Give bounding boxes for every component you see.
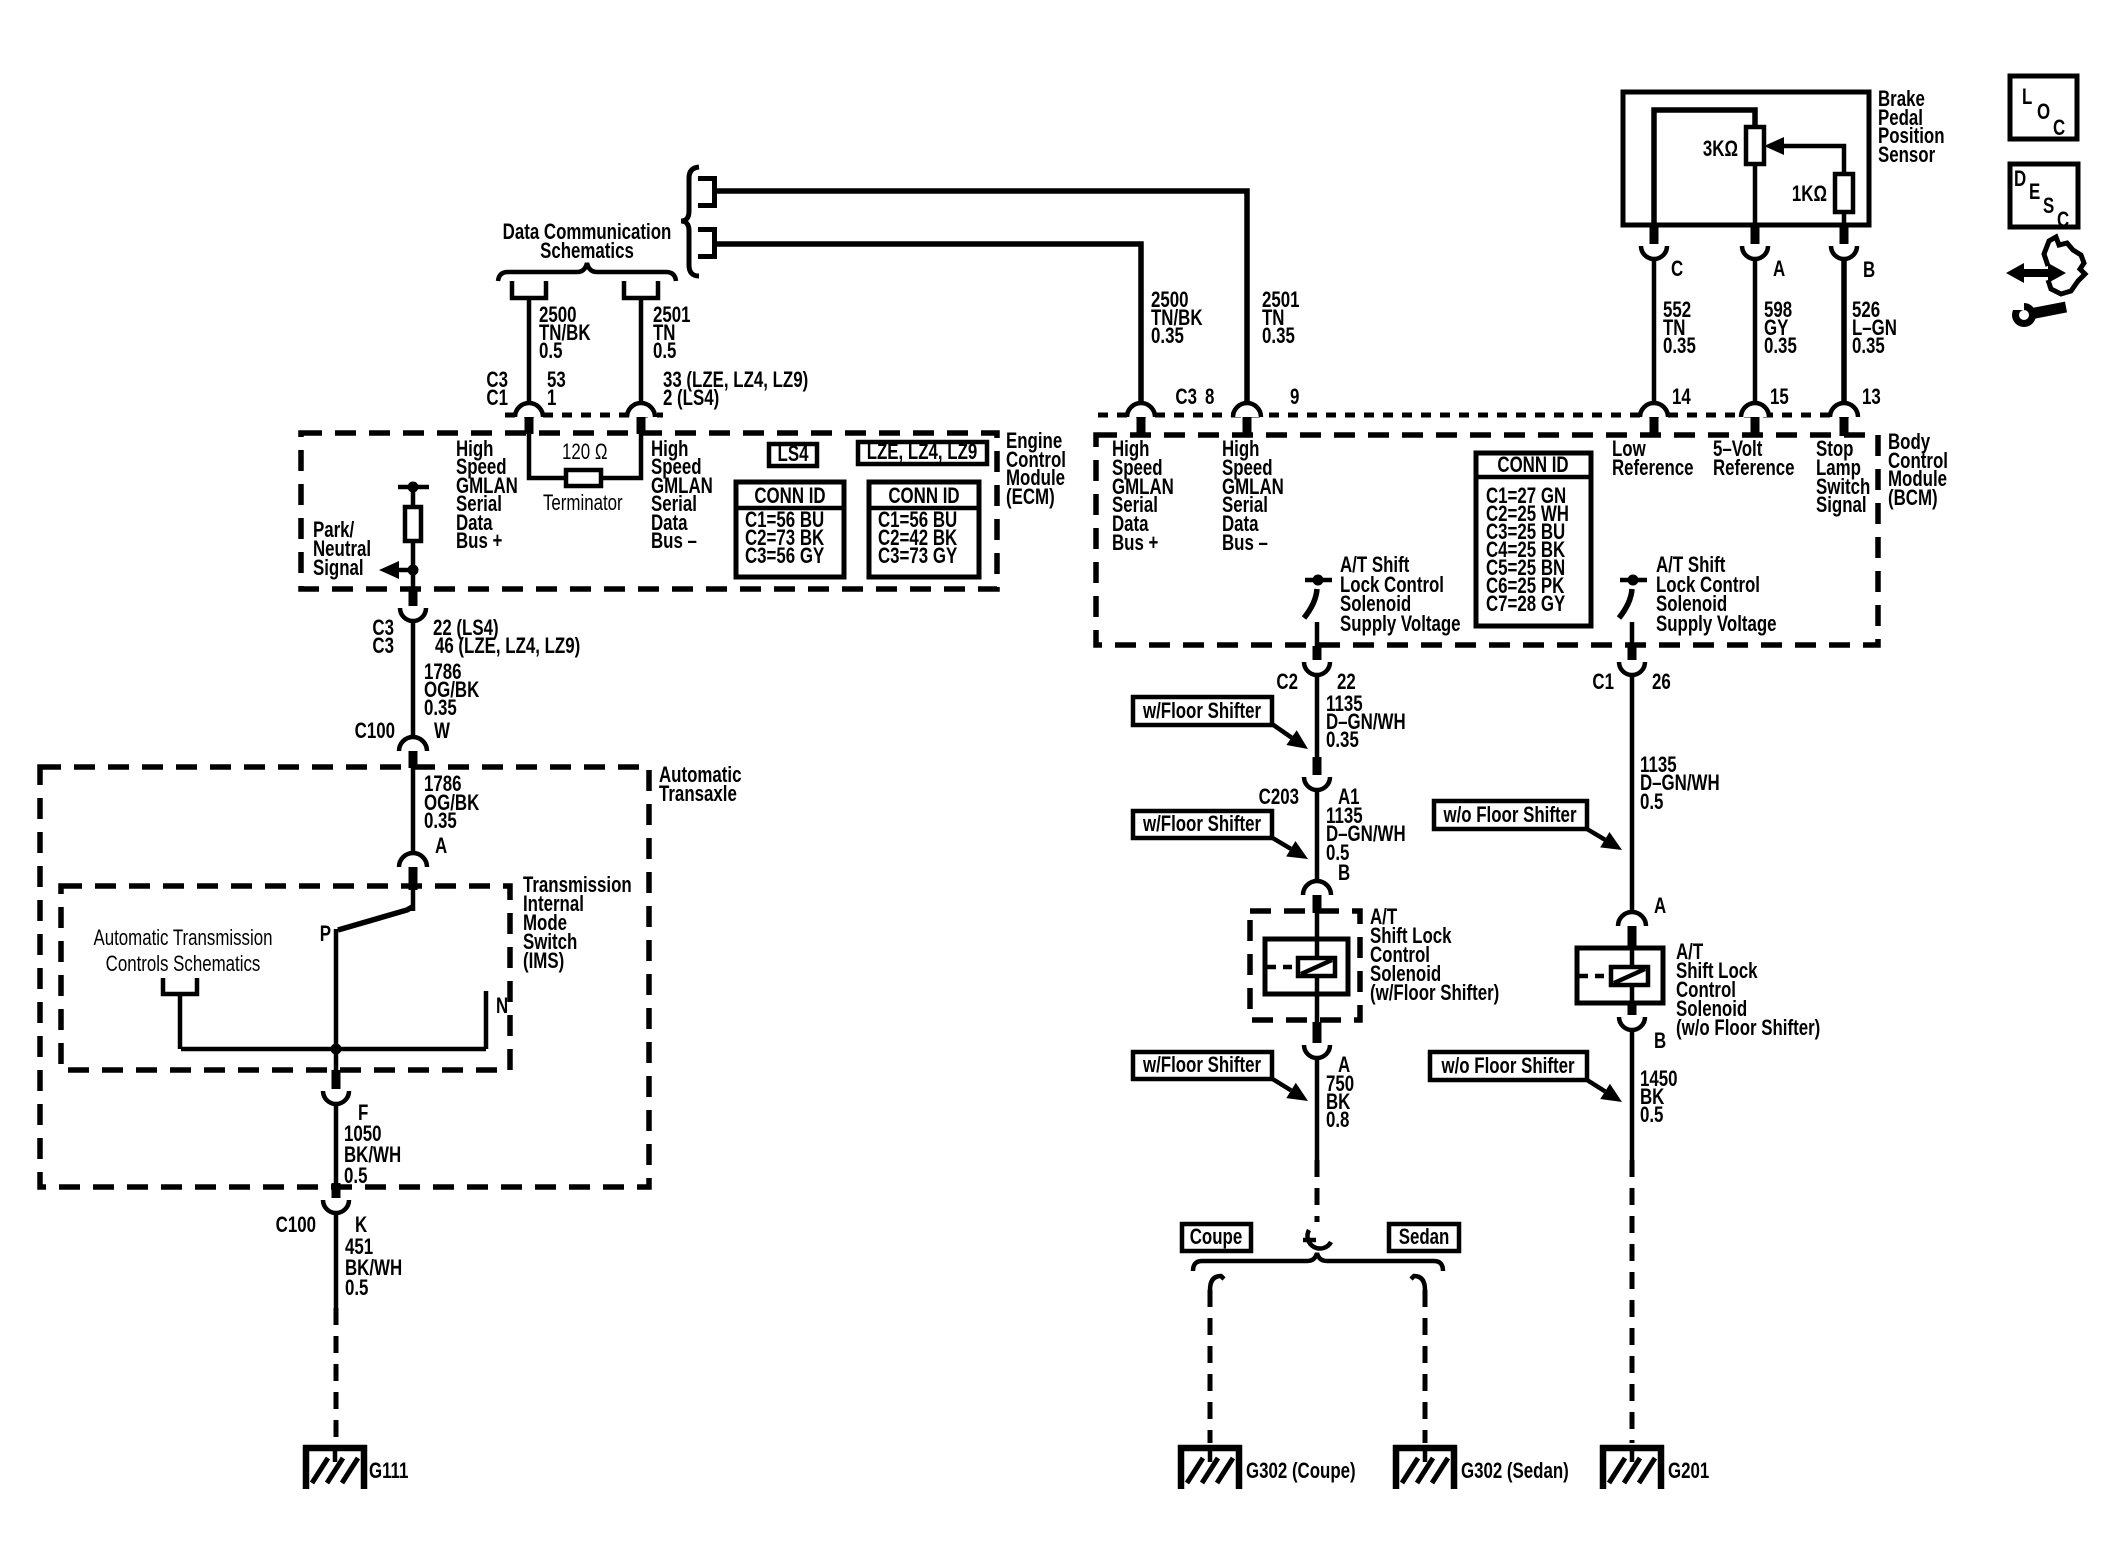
- connector C100 pin K hook: [323, 1200, 349, 1213]
- svg-text:w/o Floor Shifter: w/o Floor Shifter: [1441, 1054, 1575, 1079]
- connector C3/C1 hook into ECM pin 53/1: [515, 403, 543, 417]
- svg-text:Reference: Reference: [1612, 456, 1694, 481]
- label 598 GY 0.35: [1764, 298, 1797, 359]
- connector sensor pin C: [1650, 227, 1659, 244]
- connector half bracket controls schematics: [163, 978, 197, 994]
- label 1786 OG/BK 0.35 upper: [424, 660, 480, 721]
- svg-text:CONN ID: CONN ID: [754, 484, 825, 509]
- svg-text:W: W: [434, 719, 450, 744]
- wire 2500 TN/BK to BCM pin 9: [716, 191, 1247, 403]
- svg-text:Reference: Reference: [1713, 456, 1795, 481]
- label 1450 BK 0.5: [1640, 1067, 1678, 1128]
- module box Automatic Transaxle: [40, 767, 649, 1187]
- wire 598 GY: [1753, 259, 1758, 403]
- icon shortcut arrow and wrench: [2006, 237, 2085, 324]
- connector half U right: [624, 281, 658, 298]
- svg-text:A: A: [1773, 257, 1785, 282]
- connector F hook: [323, 1091, 349, 1104]
- wire IMS input: [411, 890, 416, 911]
- wire 750 BK dashed: [1315, 1160, 1320, 1222]
- svg-text:Supply Voltage: Supply Voltage: [1340, 612, 1461, 637]
- svg-text:O: O: [2037, 100, 2050, 125]
- label ECM: [1006, 429, 1066, 510]
- svg-text:120 Ω: 120 Ω: [562, 440, 607, 465]
- node park/neutral tee: [398, 485, 429, 490]
- svg-text:(w/o Floor Shifter): (w/o Floor Shifter): [1676, 1016, 1820, 1041]
- svg-text:Bus +: Bus +: [456, 529, 502, 554]
- label 1135 D-GN/WH 0.35: [1326, 692, 1406, 753]
- brace data-comm lower: [498, 263, 676, 281]
- svg-text:L: L: [2022, 85, 2032, 110]
- ground G302 (Coupe): [1178, 1445, 1242, 1489]
- wire terminator left leg: [529, 434, 566, 478]
- connector hook into ECM pin 33/2: [627, 403, 655, 417]
- svg-text:1: 1: [547, 386, 556, 411]
- callout w/o Floor Shifter 1: [1434, 801, 1587, 829]
- svg-text:Signal: Signal: [313, 556, 364, 581]
- wire through solenoid w/o floor: [1630, 950, 1635, 1004]
- ground G111: [303, 1445, 367, 1489]
- table CONN ID LS4: [736, 482, 844, 577]
- svg-text:w/Floor Shifter: w/Floor Shifter: [1142, 1053, 1261, 1078]
- svg-text:0.35: 0.35: [1326, 728, 1359, 753]
- brace coupe/sedan: [1193, 1253, 1443, 1271]
- label High Speed GMLAN Serial Data Bus + BCM: [1112, 437, 1174, 556]
- icon LOC box: [2010, 76, 2077, 141]
- svg-text:G302 (Sedan): G302 (Sedan): [1461, 1459, 1569, 1484]
- label A/T Shift Lock Control Solenoid (w/Floor Shifter): [1370, 905, 1499, 1006]
- svg-text:C2: C2: [1276, 670, 1298, 695]
- wire wiper with arrow: [1782, 146, 1844, 174]
- svg-text:CONN ID: CONN ID: [888, 484, 959, 509]
- label Stop Lamp Switch Signal: [1816, 437, 1870, 518]
- svg-text:B: B: [1654, 1029, 1666, 1054]
- wire sedan branch dashed: [1423, 1290, 1428, 1443]
- wire arrow w/Floor Shifter 3: [1271, 1078, 1291, 1090]
- wire IMS common: [181, 1047, 486, 1052]
- module box Body Control Module BCM: [1096, 435, 1878, 645]
- label Automatic Transmission Controls Schematics: [93, 926, 272, 977]
- connector solenoid w/o pin A hook: [1618, 912, 1646, 926]
- svg-text:D: D: [2014, 167, 2026, 192]
- svg-text:C1: C1: [1592, 670, 1614, 695]
- wire through solenoid w/floor: [1315, 913, 1320, 1022]
- connector C203 stub: [1313, 757, 1322, 775]
- svg-text:0.5: 0.5: [653, 339, 676, 364]
- svg-text:Bus +: Bus +: [1112, 531, 1158, 556]
- label Brake Pedal Position Sensor: [1878, 87, 1945, 168]
- svg-text:0.35: 0.35: [1663, 334, 1696, 359]
- connector solenoid w/floor pin A hook: [1304, 1045, 1330, 1058]
- label 33/2 pins: [663, 368, 808, 411]
- connector solenoid w/o pin B hook: [1619, 1017, 1645, 1030]
- connector half hook coupe branch: [1210, 1276, 1224, 1290]
- node Data Communication Schematics label: [503, 220, 672, 264]
- label 22 (LS4) / 46: [433, 616, 580, 659]
- component box Brake Pedal Position Sensor: [1623, 92, 1869, 225]
- svg-text:Coupe: Coupe: [1190, 1225, 1242, 1250]
- wire 1450 BK dashed: [1630, 1160, 1635, 1443]
- svg-text:Transaxle: Transaxle: [659, 782, 737, 807]
- node LZE LZ4 LZ9 tag: [858, 440, 987, 465]
- svg-text:0.35: 0.35: [424, 809, 457, 834]
- wire terminator right leg: [601, 434, 641, 478]
- svg-text:1KΩ: 1KΩ: [1792, 182, 1827, 207]
- svg-text:G201: G201: [1668, 1459, 1709, 1484]
- svg-text:w/o Floor Shifter: w/o Floor Shifter: [1443, 803, 1577, 828]
- wire controls schematics drop: [178, 994, 183, 1049]
- wire arrow w/Floor Shifter 2: [1271, 837, 1291, 849]
- label 2501 TN 0.5: [653, 303, 691, 364]
- svg-text:8: 8: [1205, 385, 1214, 410]
- svg-text:3KΩ: 3KΩ: [1703, 137, 1738, 162]
- wire 2500 TN/BK 0.5: [527, 298, 532, 403]
- svg-text:2 (LS4): 2 (LS4): [663, 386, 719, 411]
- svg-text:Sensor: Sensor: [1878, 143, 1935, 168]
- wire arrow w/Floor Shifter 1: [1272, 724, 1292, 738]
- svg-text:C100: C100: [276, 1213, 316, 1238]
- svg-text:0.5: 0.5: [1640, 790, 1663, 815]
- resistor 120 ohm terminator: [566, 470, 601, 486]
- label A/T Shift Lock Control Solenoid (w/o Floor Shifter): [1676, 940, 1820, 1041]
- connector C1 pin 26 stub: [1628, 646, 1637, 660]
- connector C100 pin W hook: [399, 737, 427, 751]
- svg-text:15: 15: [1770, 385, 1789, 410]
- label C1 26: [1592, 670, 1670, 695]
- svg-text:0.35: 0.35: [1852, 334, 1885, 359]
- connector hook BCM pin 8: [1127, 403, 1155, 417]
- node LS4 tag: [769, 442, 817, 467]
- wire switch right to BCM edge: [1630, 622, 1635, 646]
- svg-text:0.35: 0.35: [424, 696, 457, 721]
- switch A/T shift lock left: [1304, 575, 1332, 619]
- label 1050 BK/WH 0.5: [344, 1122, 401, 1189]
- label A/T Shift Lock Control Solenoid Supply Voltage left: [1340, 553, 1461, 637]
- table CONN ID LZE LZ4 LZ9: [869, 482, 979, 577]
- connector C100 pin K stub: [332, 1183, 341, 1198]
- wire 1K to pin B: [1842, 212, 1847, 227]
- wire 1135 lower: [1315, 790, 1320, 881]
- connector C3 hook: [400, 608, 426, 621]
- svg-text:(BCM): (BCM): [1888, 486, 1938, 511]
- wire 1450 BK solid: [1630, 1030, 1635, 1160]
- svg-text:E: E: [2029, 180, 2040, 205]
- svg-text:13: 13: [1862, 385, 1881, 410]
- label 5-Volt Reference: [1713, 437, 1795, 481]
- label Park/Neutral Signal: [313, 518, 371, 581]
- wire park/neutral internal: [411, 487, 416, 590]
- wire dashed actuation w/floor: [1267, 965, 1298, 970]
- component box solenoid w/o floor: [1577, 948, 1663, 1003]
- label Transmission Internal Mode Switch (IMS): [523, 873, 632, 974]
- wire IMS output stub: [334, 1049, 339, 1070]
- ground G201: [1600, 1445, 1664, 1489]
- svg-text:Supply Voltage: Supply Voltage: [1656, 612, 1777, 637]
- node IMS common junction: [331, 1044, 342, 1055]
- wire 3K to pin A: [1753, 164, 1758, 227]
- callout w/Floor Shifter 1: [1133, 697, 1272, 725]
- wire dashed actuation w/o floor: [1579, 974, 1611, 979]
- label Low Reference: [1612, 437, 1694, 481]
- connector solenoid pin B hook: [1303, 881, 1331, 895]
- svg-text:C3: C3: [372, 634, 394, 659]
- callout w/Floor Shifter 3: [1133, 1052, 1272, 1079]
- connector solenoid w/floor pin A stub: [1313, 1022, 1322, 1043]
- svg-text:0.8: 0.8: [1326, 1108, 1349, 1133]
- svg-text:LS4: LS4: [778, 442, 809, 467]
- svg-text:G302 (Coupe): G302 (Coupe): [1246, 1459, 1356, 1484]
- svg-text:C1: C1: [486, 386, 508, 411]
- svg-text:Schematics: Schematics: [540, 239, 634, 264]
- svg-text:C100: C100: [355, 719, 395, 744]
- connector face dash row BCM: [1098, 413, 1858, 418]
- label 2500 TN/BK 0.5: [539, 303, 591, 364]
- wire 750 BK solid: [1315, 1058, 1320, 1160]
- brace data-comm right: [681, 167, 699, 276]
- svg-text:0.35: 0.35: [1764, 334, 1797, 359]
- wire IMS P contact: [334, 929, 339, 1049]
- wire 526 L-GN: [1841, 259, 1847, 403]
- label 750 BK 0.8: [1326, 1072, 1354, 1133]
- svg-text:(IMS): (IMS): [523, 949, 564, 974]
- connector sensor pin B: [1840, 227, 1849, 244]
- wire 2501 TN to BCM pin 8: [716, 244, 1141, 403]
- node park/neutral junction: [408, 565, 419, 576]
- resistor 3K potentiometer: [1746, 127, 1764, 164]
- svg-text:C3=73 GY: C3=73 GY: [878, 544, 957, 569]
- connector hook BCM pin 9: [1233, 403, 1261, 417]
- connector face dash row ECM: [505, 413, 663, 418]
- wire 1050 BK/WH: [334, 1104, 339, 1183]
- wire arrow w/o Floor Shifter 2: [1587, 1080, 1605, 1091]
- wire 1135 upper: [1315, 675, 1320, 757]
- connector hook BCM pin 13: [1830, 403, 1858, 417]
- wire park/neutral signal arrow: [399, 568, 413, 573]
- svg-text:P: P: [320, 922, 331, 947]
- ground G302 (Sedan): [1393, 1445, 1457, 1489]
- resistor 1K: [1835, 174, 1853, 212]
- resistor park/neutral pull-up: [405, 507, 421, 541]
- svg-text:0.5: 0.5: [1640, 1103, 1663, 1128]
- svg-text:B: B: [1338, 861, 1350, 886]
- svg-text:Sedan: Sedan: [1399, 1225, 1450, 1250]
- svg-text:G111: G111: [369, 1459, 408, 1484]
- svg-text:C: C: [2053, 116, 2065, 141]
- connector half bracket upper: [698, 176, 717, 208]
- svg-text:Signal: Signal: [1816, 493, 1867, 518]
- svg-text:C203: C203: [1259, 785, 1299, 810]
- wire sensor internal left: [1654, 110, 1755, 227]
- label C2 22: [1276, 670, 1355, 695]
- table CONN ID BCM: [1476, 453, 1591, 626]
- svg-text:0.35: 0.35: [1151, 324, 1184, 349]
- svg-text:(w/Floor Shifter): (w/Floor Shifter): [1370, 981, 1499, 1006]
- callout Coupe: [1182, 1224, 1251, 1251]
- component box solenoid w/floor: [1265, 939, 1348, 994]
- wire 1135 right: [1630, 675, 1635, 912]
- svg-text:Terminator: Terminator: [543, 491, 623, 516]
- label 2500 TN/BK 0.35: [1151, 288, 1203, 349]
- wire arrow w/o Floor Shifter 1: [1587, 829, 1605, 840]
- connector C2 hook: [1304, 662, 1330, 675]
- svg-text:S: S: [2043, 194, 2054, 219]
- svg-text:w/Floor Shifter: w/Floor Shifter: [1142, 699, 1261, 724]
- label 2501 TN 0.35: [1262, 288, 1300, 349]
- connector hook BCM pin 15: [1741, 403, 1769, 417]
- wire switch left to BCM edge: [1315, 622, 1320, 646]
- svg-text:A: A: [1654, 894, 1666, 919]
- connector C2 pin 22 stub: [1313, 646, 1322, 660]
- component dashed box A/T shift lock solenoid w/floor: [1250, 911, 1360, 1020]
- svg-text:Bus –: Bus –: [1222, 531, 1268, 556]
- label 1135 D-GN/WH 0.5: [1326, 804, 1406, 866]
- connector sensor pin A: [1751, 227, 1760, 244]
- svg-text:Automatic Transmission: Automatic Transmission: [93, 926, 272, 951]
- svg-text:w/Floor Shifter: w/Floor Shifter: [1142, 812, 1261, 837]
- label High Speed GMLAN Serial Data Bus +: [456, 437, 518, 554]
- svg-text:0.5: 0.5: [344, 1164, 367, 1189]
- switch A/T shift lock right: [1619, 575, 1647, 619]
- svg-text:C3=56 GY: C3=56 GY: [745, 544, 824, 569]
- label pins C A B: [1671, 257, 1875, 283]
- svg-text:N: N: [496, 994, 508, 1019]
- module box Engine Control Module ECM: [301, 433, 997, 589]
- label 451 BK/WH 0.5: [345, 1235, 402, 1301]
- connector splice hook: [1303, 1230, 1331, 1249]
- connector solenoid w/o pin B stub: [1628, 1004, 1637, 1015]
- wire 1786 OG/BK lower: [411, 768, 416, 853]
- label C3 8 9: [1175, 385, 1299, 410]
- svg-text:(ECM): (ECM): [1006, 485, 1055, 510]
- wire 451 BK/WH dashed to ground: [334, 1308, 339, 1443]
- relay coil element w/o floor: [1611, 967, 1648, 985]
- label 526 L-GN 0.35: [1852, 298, 1897, 359]
- connector half bracket lower: [698, 227, 717, 259]
- label 552 TN 0.35: [1663, 298, 1696, 359]
- relay coil element w/floor: [1298, 958, 1335, 976]
- label C3 C1 pins: [486, 368, 565, 411]
- svg-text:0.5: 0.5: [345, 1276, 368, 1301]
- svg-text:CONN ID: CONN ID: [1497, 453, 1568, 478]
- svg-text:0.5: 0.5: [539, 339, 562, 364]
- wire IMS N contact: [484, 991, 489, 1049]
- callout w/o Floor Shifter 2: [1430, 1052, 1587, 1080]
- label High Speed GMLAN Serial Data Bus - BCM: [1222, 437, 1284, 556]
- module box Transmission Internal Mode Switch IMS: [61, 886, 510, 1070]
- svg-text:26: 26: [1652, 670, 1671, 695]
- wire 1786 OG/BK upper: [411, 621, 416, 737]
- connector A hook IMS: [399, 853, 427, 867]
- svg-text:14: 14: [1672, 385, 1691, 410]
- connector C203 hook pin A1: [1304, 777, 1330, 790]
- wire 552 TN: [1652, 259, 1657, 403]
- svg-text:B: B: [1863, 258, 1875, 283]
- label 1135 D-GN/WH 0.5 right: [1640, 753, 1720, 815]
- icon DESC box: [2010, 164, 2078, 233]
- svg-text:Controls Schematics: Controls Schematics: [106, 952, 261, 977]
- svg-text:C: C: [2057, 208, 2069, 233]
- connector C1 hook: [1619, 662, 1645, 675]
- svg-text:46 (LZE, LZ4, LZ9): 46 (LZE, LZ4, LZ9): [435, 634, 580, 659]
- connector half U left: [512, 281, 546, 298]
- label 1786 OG/BK 0.35 lower: [424, 772, 480, 834]
- label C3 C3: [372, 616, 394, 659]
- label C203 A1: [1259, 785, 1360, 810]
- svg-text:0.35: 0.35: [1262, 324, 1295, 349]
- switch IMS blade A to P: [338, 906, 414, 930]
- svg-text:C: C: [1671, 257, 1683, 282]
- label High Speed GMLAN Serial Data Bus -: [651, 437, 713, 554]
- connector half hook sedan branch: [1411, 1276, 1425, 1290]
- callout w/Floor Shifter 2: [1133, 811, 1272, 838]
- connector C3 pin 22/46 stub: [409, 590, 418, 606]
- wire coupe branch dashed: [1208, 1290, 1213, 1443]
- label BCM: [1888, 430, 1948, 511]
- label C100 K: [276, 1213, 368, 1238]
- svg-text:C3: C3: [1175, 385, 1197, 410]
- svg-text:A: A: [435, 834, 447, 859]
- label C100 W: [355, 719, 450, 744]
- label pin numbers 14 15 13: [1672, 385, 1881, 410]
- svg-text:9: 9: [1290, 385, 1299, 410]
- wire 451 BK/WH solid: [334, 1213, 339, 1308]
- label A/T Shift Lock Control Solenoid Supply Voltage right: [1656, 553, 1777, 637]
- connector hook BCM pin 14: [1640, 403, 1668, 417]
- svg-text:LZE, LZ4, LZ9: LZE, LZ4, LZ9: [867, 440, 978, 465]
- svg-text:Bus –: Bus –: [651, 529, 697, 554]
- callout Sedan: [1389, 1224, 1459, 1251]
- svg-text:C7=28 GY: C7=28 GY: [1486, 592, 1565, 617]
- label Automatic Transaxle: [659, 763, 741, 807]
- wire 2501 TN 0.5: [639, 298, 644, 403]
